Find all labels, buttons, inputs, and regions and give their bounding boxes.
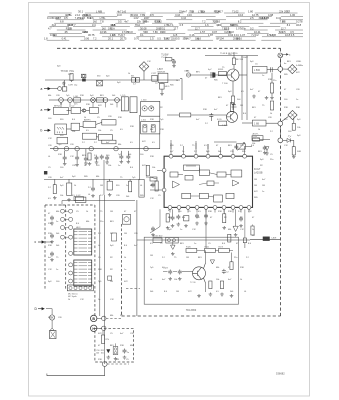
svg-text:2.2: 2.2 xyxy=(205,123,209,125)
cap row1 e xyxy=(84,157,88,162)
svg-text:C20: C20 xyxy=(268,117,273,119)
svg-text:c: c xyxy=(289,54,291,57)
svg-text:4n7: 4n7 xyxy=(228,279,232,281)
below IC grp4 xyxy=(195,214,199,219)
svg-text:10k: 10k xyxy=(216,279,219,281)
circle node LED xyxy=(278,138,283,143)
box col d xyxy=(107,181,112,190)
box in2d xyxy=(90,107,99,113)
svg-text:0.1: 0.1 xyxy=(140,33,144,37)
connector strip bottom xyxy=(67,285,93,291)
box filt b xyxy=(55,124,67,135)
svg-text:0.5: 0.5 xyxy=(157,38,161,41)
svg-text:C12: C12 xyxy=(48,269,53,271)
svg-text:L 401: L 401 xyxy=(141,119,147,121)
cap above IC xyxy=(263,146,267,151)
svg-text:330: 330 xyxy=(60,135,64,137)
svg-text:4.98: 4.98 xyxy=(268,13,274,17)
module box1 xyxy=(74,229,92,255)
svg-text:C5: C5 xyxy=(76,211,79,213)
box f101 xyxy=(97,98,104,102)
vert wires lowerleft xyxy=(99,195,101,316)
svg-text:3p3: 3p3 xyxy=(297,119,301,121)
mixer M1 box xyxy=(97,81,103,86)
dashed box audio xyxy=(95,328,134,362)
svg-text:TU4.7: TU4.7 xyxy=(164,38,171,41)
svg-text:T 100: T 100 xyxy=(222,83,228,85)
dashed border right xyxy=(280,48,282,316)
svg-text:2.2: 2.2 xyxy=(194,151,198,153)
svg-text:C12: C12 xyxy=(240,229,245,231)
svg-text:7p5: 7p5 xyxy=(160,119,164,121)
svg-text:8.2: 8.2 xyxy=(238,21,242,24)
res amp5 xyxy=(230,262,233,270)
svg-text:BF1: BF1 xyxy=(218,97,223,99)
svg-text:3p3: 3p3 xyxy=(260,159,264,161)
svg-text:HE F: HE F xyxy=(76,227,81,229)
svg-text:C12: C12 xyxy=(248,211,253,213)
svg-text:1n: 1n xyxy=(262,191,264,193)
svg-text:1n: 1n xyxy=(194,243,196,245)
box delay 1_6B-top xyxy=(252,66,267,73)
filled bead xyxy=(213,73,216,77)
vert x242 xyxy=(241,56,243,120)
svg-text:2.2: 2.2 xyxy=(100,195,104,197)
svg-text:0.2: 0.2 xyxy=(255,33,259,37)
svg-text:7p5: 7p5 xyxy=(98,281,102,283)
comp y198 xyxy=(74,197,83,201)
bias box2 xyxy=(205,248,216,252)
svg-text:C127: C127 xyxy=(151,73,157,75)
svg-text:0.5: 0.5 xyxy=(198,211,202,213)
svg-text:330: 330 xyxy=(97,76,101,78)
resistor R32 vert xyxy=(270,101,273,110)
svg-text:L4: L4 xyxy=(60,104,63,106)
svg-text:0.41: 0.41 xyxy=(62,38,67,41)
svg-text:7.1: 7.1 xyxy=(170,23,174,27)
svg-text:100: 100 xyxy=(284,99,288,101)
dashed border top xyxy=(57,47,281,49)
svg-text:R2: R2 xyxy=(110,269,113,271)
svg-text:6.8: 6.8 xyxy=(60,20,64,24)
svg-text:TT/CR: TT/CR xyxy=(61,70,69,73)
svg-text:TU4.7: TU4.7 xyxy=(184,38,191,41)
svg-text:4n7: 4n7 xyxy=(170,151,174,153)
svg-text:1n: 1n xyxy=(56,269,58,271)
svg-text:R205: R205 xyxy=(218,69,224,71)
svg-text:10.8: 10.8 xyxy=(117,14,122,17)
resistor R12 horiz xyxy=(165,58,172,61)
svg-text:4n7: 4n7 xyxy=(214,109,218,111)
svg-text:C5: C5 xyxy=(110,130,113,132)
svg-text:20.75: 20.75 xyxy=(120,37,127,41)
svg-text:.05: .05 xyxy=(64,30,68,34)
diamond X3 xyxy=(288,110,297,119)
svg-text:D: D xyxy=(35,307,38,311)
svg-text:1M: 1M xyxy=(186,257,189,259)
svg-text:2.2: 2.2 xyxy=(98,233,102,235)
circle node right2 xyxy=(278,121,283,126)
svg-text:5k6: 5k6 xyxy=(110,104,114,106)
svg-text:0V2: 0V2 xyxy=(98,333,102,335)
svg-text:4p7: 4p7 xyxy=(208,69,212,71)
comp in wire xyxy=(186,73,190,77)
svg-text:TDA: TDA xyxy=(110,27,115,30)
svg-text:47: 47 xyxy=(258,91,261,93)
box 1_6B xyxy=(252,120,266,126)
svg-text:R05: R05 xyxy=(84,176,89,178)
transistor Q2 xyxy=(227,111,238,122)
voltage table xyxy=(49,12,72,14)
svg-text:7p5: 7p5 xyxy=(132,177,136,179)
svg-text:2.2: 2.2 xyxy=(48,187,52,189)
svg-text:R05: R05 xyxy=(140,195,145,197)
svg-text:B 20: B 20 xyxy=(217,119,222,121)
diode D31 xyxy=(232,105,237,107)
svg-text:0.2: 0.2 xyxy=(250,26,254,30)
svg-text:L MB: L MB xyxy=(96,9,102,13)
node c7 xyxy=(64,147,68,151)
svg-text:1M: 1M xyxy=(100,185,103,187)
diamond X1 mixer xyxy=(139,62,149,72)
svg-text:C5: C5 xyxy=(126,359,129,361)
svg-text:R18: R18 xyxy=(98,359,103,361)
svg-text:2.2: 2.2 xyxy=(110,233,114,235)
svg-text:R18: R18 xyxy=(240,267,245,269)
svg-text:30.1: 30.1 xyxy=(259,17,264,20)
filter tall box1 xyxy=(121,97,128,111)
box HF5 below xyxy=(160,83,165,89)
svg-text:R18: R18 xyxy=(160,129,165,131)
svg-text:2.2: 2.2 xyxy=(246,257,250,259)
res amp vert xyxy=(228,234,231,242)
dashed tuner border v2 xyxy=(94,205,96,316)
svg-text:2.14: 2.14 xyxy=(80,17,85,20)
svg-text:DE-DE: DE-DE xyxy=(253,138,260,140)
svg-text:3p3: 3p3 xyxy=(57,66,61,68)
ground g32b xyxy=(265,96,269,100)
svg-text:100: 100 xyxy=(60,167,64,169)
vert x104 upper xyxy=(103,160,105,195)
svg-text:1M: 1M xyxy=(116,359,119,361)
box r2d xyxy=(102,140,116,144)
svg-text:1n: 1n xyxy=(180,229,182,231)
svg-text:MC Synth: MC Synth xyxy=(68,295,77,298)
wire box right xyxy=(267,69,278,71)
svg-text:4n7: 4n7 xyxy=(60,177,64,179)
svg-text:R18: R18 xyxy=(203,109,208,111)
svg-text:C5: C5 xyxy=(270,154,273,156)
svg-text:BF1: BF1 xyxy=(196,72,201,74)
svg-text:C5: C5 xyxy=(188,211,191,213)
svg-text:C2: C2 xyxy=(72,105,76,107)
svg-text:1n: 1n xyxy=(262,75,264,77)
box r2c xyxy=(98,135,112,141)
amp box outline xyxy=(144,237,238,304)
svg-text:R18: R18 xyxy=(120,345,125,347)
svg-text:1.5: 1.5 xyxy=(150,37,154,41)
svg-text:0.5: 0.5 xyxy=(86,130,90,132)
svg-text:C12: C12 xyxy=(110,299,115,301)
mid col comps xyxy=(151,227,155,232)
box filt b2 xyxy=(71,123,80,130)
below IC grp7 xyxy=(233,226,238,231)
circled H xyxy=(91,325,97,331)
circle node right xyxy=(278,67,283,72)
svg-text:1M: 1M xyxy=(254,179,257,181)
dashed tuner border v1 xyxy=(65,205,67,290)
svg-text:0.16: 0.16 xyxy=(181,17,186,20)
box in2a xyxy=(53,107,68,114)
svg-text:BF1: BF1 xyxy=(228,145,233,147)
svg-text:R2: R2 xyxy=(160,107,163,109)
wire bottom xyxy=(104,366,106,375)
svg-text:10.41: 10.41 xyxy=(254,30,261,34)
svg-text:68k: 68k xyxy=(228,229,231,231)
cap C58 xyxy=(211,72,213,78)
tuner caps xyxy=(50,216,54,221)
svg-text:1.07: 1.07 xyxy=(240,33,246,37)
wire y100 xyxy=(58,99,121,101)
svg-text:R2: R2 xyxy=(110,257,113,259)
svg-text:0V2: 0V2 xyxy=(296,72,300,74)
svg-text:56R: 56R xyxy=(297,151,301,153)
svg-text:10.96: 10.96 xyxy=(100,30,107,34)
box L507 xyxy=(158,73,168,82)
below IC grp2 xyxy=(176,215,180,220)
svg-text:30.08: 30.08 xyxy=(140,26,147,30)
ground g53 xyxy=(265,152,269,156)
box ACTIA xyxy=(252,136,263,141)
svg-text:4n7: 4n7 xyxy=(134,245,138,247)
svg-text:22n: 22n xyxy=(68,74,71,76)
svg-text:1k: 1k xyxy=(124,257,126,259)
diode amp xyxy=(171,245,176,249)
svg-text:3p3: 3p3 xyxy=(228,91,232,93)
svg-text:0.5: 0.5 xyxy=(64,16,68,20)
svg-text:R05: R05 xyxy=(170,85,175,87)
svg-text:0V2: 0V2 xyxy=(124,281,128,283)
bias wires xyxy=(197,249,205,251)
svg-text:3p3: 3p3 xyxy=(117,82,121,84)
svg-text:10.8 0.5: 10.8 0.5 xyxy=(285,33,295,37)
svg-text:m0: m0 xyxy=(252,235,256,237)
svg-text:BF1: BF1 xyxy=(100,95,105,97)
connector circles xyxy=(61,209,65,213)
svg-text:5k6: 5k6 xyxy=(230,291,234,293)
svg-text:B 4: B 4 xyxy=(72,119,76,121)
can box L401 xyxy=(141,122,160,134)
svg-text:10k: 10k xyxy=(174,279,177,281)
below IC grp5 xyxy=(204,214,208,219)
res amp3 xyxy=(220,281,223,289)
svg-text:L4: L4 xyxy=(48,156,51,158)
svg-text:C5: C5 xyxy=(208,243,211,245)
svg-text:22n: 22n xyxy=(234,257,237,259)
svg-text:C5: C5 xyxy=(97,117,100,119)
comp below2 xyxy=(161,82,163,85)
svg-text:7.89: 7.89 xyxy=(153,31,158,34)
wire y148.7 xyxy=(50,148,160,150)
svg-text:0.70: 0.70 xyxy=(134,37,140,41)
svg-text:47: 47 xyxy=(124,211,127,213)
svg-text:0.5: 0.5 xyxy=(180,24,184,27)
svg-text:0.5: 0.5 xyxy=(204,145,208,147)
cap amp a xyxy=(168,270,172,275)
svg-text:0.41: 0.41 xyxy=(276,16,282,20)
filter tall box2 xyxy=(130,97,137,113)
svg-text:330: 330 xyxy=(284,119,288,121)
svg-text:C20: C20 xyxy=(70,144,75,146)
svg-text:1n: 1n xyxy=(126,185,128,187)
Q3 collector up xyxy=(204,263,206,269)
svg-text:330: 330 xyxy=(96,165,100,167)
svg-text:HIG: HIG xyxy=(70,70,75,73)
svg-text:47: 47 xyxy=(254,117,257,119)
svg-text:68k: 68k xyxy=(56,211,59,213)
svg-text:C20: C20 xyxy=(58,317,63,319)
filter F1 boxes xyxy=(132,78,136,82)
svg-text:0.04: 0.04 xyxy=(228,33,234,37)
svg-text:R 1B: R 1B xyxy=(252,136,257,138)
svg-text:B 4: B 4 xyxy=(130,167,134,169)
svg-text:BF194: BF194 xyxy=(52,17,60,20)
svg-text:100n: 100n xyxy=(240,27,246,30)
svg-text:R05: R05 xyxy=(284,74,289,76)
svg-text:5k6: 5k6 xyxy=(56,233,60,235)
trimmer TR1 xyxy=(81,74,86,78)
svg-text:56R: 56R xyxy=(87,17,92,20)
res col e xyxy=(129,181,132,192)
svg-text:3p3: 3p3 xyxy=(48,281,52,283)
svg-text:L4: L4 xyxy=(140,185,143,187)
IC U1 LA203B xyxy=(164,156,252,207)
transistor Q3 xyxy=(193,267,206,280)
resistor R11 vert xyxy=(70,74,73,81)
svg-text:C20: C20 xyxy=(134,233,139,235)
wire q1 bottom xyxy=(232,81,234,96)
IF vert stubs xyxy=(60,102,62,107)
box B101 xyxy=(153,238,162,243)
svg-text:c: c xyxy=(35,240,37,244)
svg-text:2.2: 2.2 xyxy=(94,142,98,144)
svg-text:20.1: 20.1 xyxy=(108,37,114,41)
svg-text:B 4: B 4 xyxy=(222,243,226,245)
svg-text:0.5: 0.5 xyxy=(152,142,156,144)
svg-text:1n5: 1n5 xyxy=(122,10,127,13)
svg-text:L 400: L 400 xyxy=(141,99,147,101)
node c10 xyxy=(114,147,118,151)
svg-text:1n: 1n xyxy=(56,221,58,223)
svg-text:C20: C20 xyxy=(196,217,201,219)
svg-text:1.8: 1.8 xyxy=(44,37,48,41)
svg-text:2.2: 2.2 xyxy=(133,84,137,86)
cap amp4 xyxy=(222,269,226,274)
terminal b2 xyxy=(44,171,47,174)
res row1 f xyxy=(88,153,91,160)
mixer c3 xyxy=(91,98,96,103)
svg-text:B 4: B 4 xyxy=(124,245,128,247)
svg-text:1.00: 1.00 xyxy=(290,13,296,17)
svg-text:0.5: 0.5 xyxy=(130,142,134,144)
svg-text:0.4: 0.4 xyxy=(47,16,51,20)
svg-text:10k: 10k xyxy=(252,143,255,145)
cap row1 c xyxy=(63,156,67,161)
svg-text:R05: R05 xyxy=(254,197,259,199)
svg-text:2.2: 2.2 xyxy=(270,131,274,133)
svg-text:C5: C5 xyxy=(48,167,51,169)
wire a1 xyxy=(51,88,58,90)
svg-text:BF1: BF1 xyxy=(258,151,263,153)
svg-text:T5: T5 xyxy=(174,257,177,259)
svg-text:71.02: 71.02 xyxy=(232,9,239,13)
svg-text:330: 330 xyxy=(60,119,64,121)
cap row1 g xyxy=(95,156,99,161)
module box2 xyxy=(74,260,92,286)
svg-text:7p5: 7p5 xyxy=(150,267,154,269)
dashed tuner border top xyxy=(45,204,95,206)
vert x247 xyxy=(246,56,248,120)
wire above IC xyxy=(170,140,172,149)
svg-text:R18: R18 xyxy=(130,126,135,128)
svg-text:47: 47 xyxy=(168,210,171,212)
wire y200b xyxy=(61,201,63,206)
svg-text:T5: T5 xyxy=(56,257,59,259)
svg-text:47: 47 xyxy=(210,217,213,219)
svg-text:R18: R18 xyxy=(228,211,233,213)
dashed border left lower xyxy=(121,290,123,316)
svg-text:3p3: 3p3 xyxy=(60,185,64,187)
svg-text:0.16: 0.16 xyxy=(187,14,192,17)
wire mid right xyxy=(247,122,252,124)
svg-text:1k0: 1k0 xyxy=(195,38,200,41)
svg-text:1k0: 1k0 xyxy=(101,352,104,354)
cap row1 j xyxy=(126,155,130,160)
svg-text:3p3: 3p3 xyxy=(72,176,76,178)
svg-text:22n: 22n xyxy=(100,221,103,223)
svg-text:4.7: 4.7 xyxy=(48,26,52,30)
svg-text:10k: 10k xyxy=(98,130,101,132)
svg-text:L7BL: L7BL xyxy=(164,24,170,27)
svg-text:3p3: 3p3 xyxy=(206,151,210,153)
terminal c xyxy=(38,241,42,243)
svg-text:R18: R18 xyxy=(98,269,103,271)
svg-text:68k: 68k xyxy=(118,144,121,146)
transistor Q1 xyxy=(227,69,239,81)
box B105 xyxy=(218,72,226,76)
wire y179.4 xyxy=(44,178,140,180)
svg-text:68k: 68k xyxy=(150,129,153,131)
svg-text:BF1: BF1 xyxy=(287,61,292,63)
svg-text:C12: C12 xyxy=(150,198,155,200)
svg-text:4a: 4a xyxy=(284,63,287,65)
svg-text:C20: C20 xyxy=(116,195,121,197)
terminal b1 xyxy=(44,129,48,131)
svg-text:3p3: 3p3 xyxy=(216,24,221,27)
vert x159.8 xyxy=(159,116,161,149)
svg-text:10k: 10k xyxy=(297,127,301,129)
svg-text:3.4: 3.4 xyxy=(92,23,96,27)
mixer c1 xyxy=(59,98,64,103)
svg-text:C12: C12 xyxy=(240,145,245,147)
cap C41 xyxy=(209,113,213,118)
svg-text:3p3: 3p3 xyxy=(250,61,254,63)
box x109 xyxy=(108,276,112,280)
svg-text:a: a xyxy=(41,108,43,112)
below IC grp6 xyxy=(223,214,226,223)
vert left amp xyxy=(136,200,138,316)
svg-text:68k: 68k xyxy=(110,315,113,317)
